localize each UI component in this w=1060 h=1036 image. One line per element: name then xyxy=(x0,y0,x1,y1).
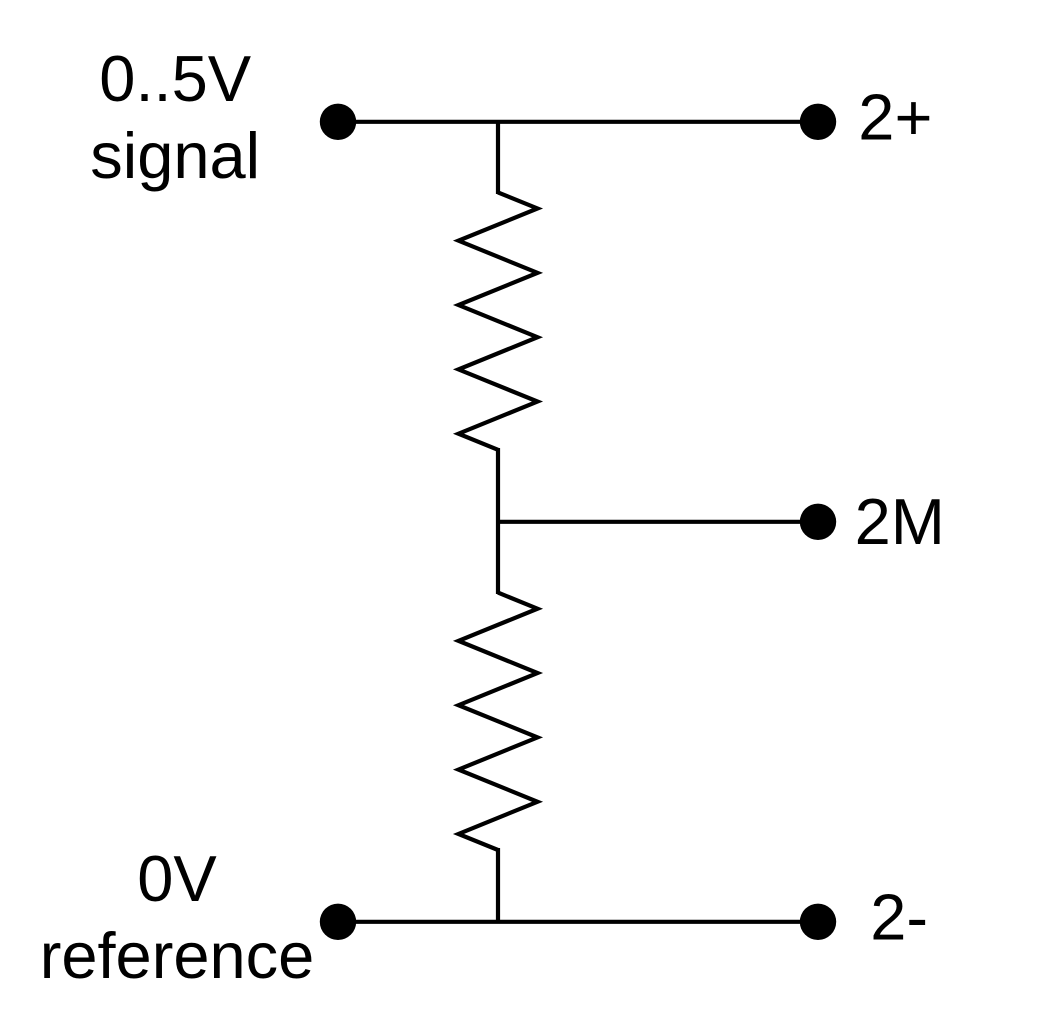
resistor R1 (upper half of divider) xyxy=(459,192,538,449)
svg-text:0V: 0V xyxy=(137,842,217,915)
svg-text:reference: reference xyxy=(40,919,315,992)
svg-text:2+: 2+ xyxy=(858,81,932,154)
node: 0V reference terminal dot xyxy=(320,904,356,940)
wire: R1 bottom to R2 top through tap junction xyxy=(496,448,500,594)
svg-text:0..5V: 0..5V xyxy=(99,42,251,115)
svg-text:signal: signal xyxy=(90,119,260,192)
node: 2- terminal dot xyxy=(800,904,836,940)
resistor R2 (lower half of divider) xyxy=(459,593,538,850)
node: 2M terminal dot xyxy=(800,504,836,540)
svg-text:2M: 2M xyxy=(855,485,945,558)
wire: vertical drop from top net to resistor R1 xyxy=(496,122,500,194)
node: 0..5V signal terminal dot xyxy=(320,104,356,140)
wire: top net from 0..5V signal terminal to 2+ terminal xyxy=(338,120,818,124)
wire: R2 bottom to bottom net xyxy=(496,848,500,922)
svg-text:2-: 2- xyxy=(870,881,928,954)
wire: tap from junction to 2M terminal xyxy=(498,520,818,524)
node: 2+ terminal dot xyxy=(800,104,836,140)
wire: bottom net from 0V reference terminal to 2- terminal xyxy=(338,920,818,924)
